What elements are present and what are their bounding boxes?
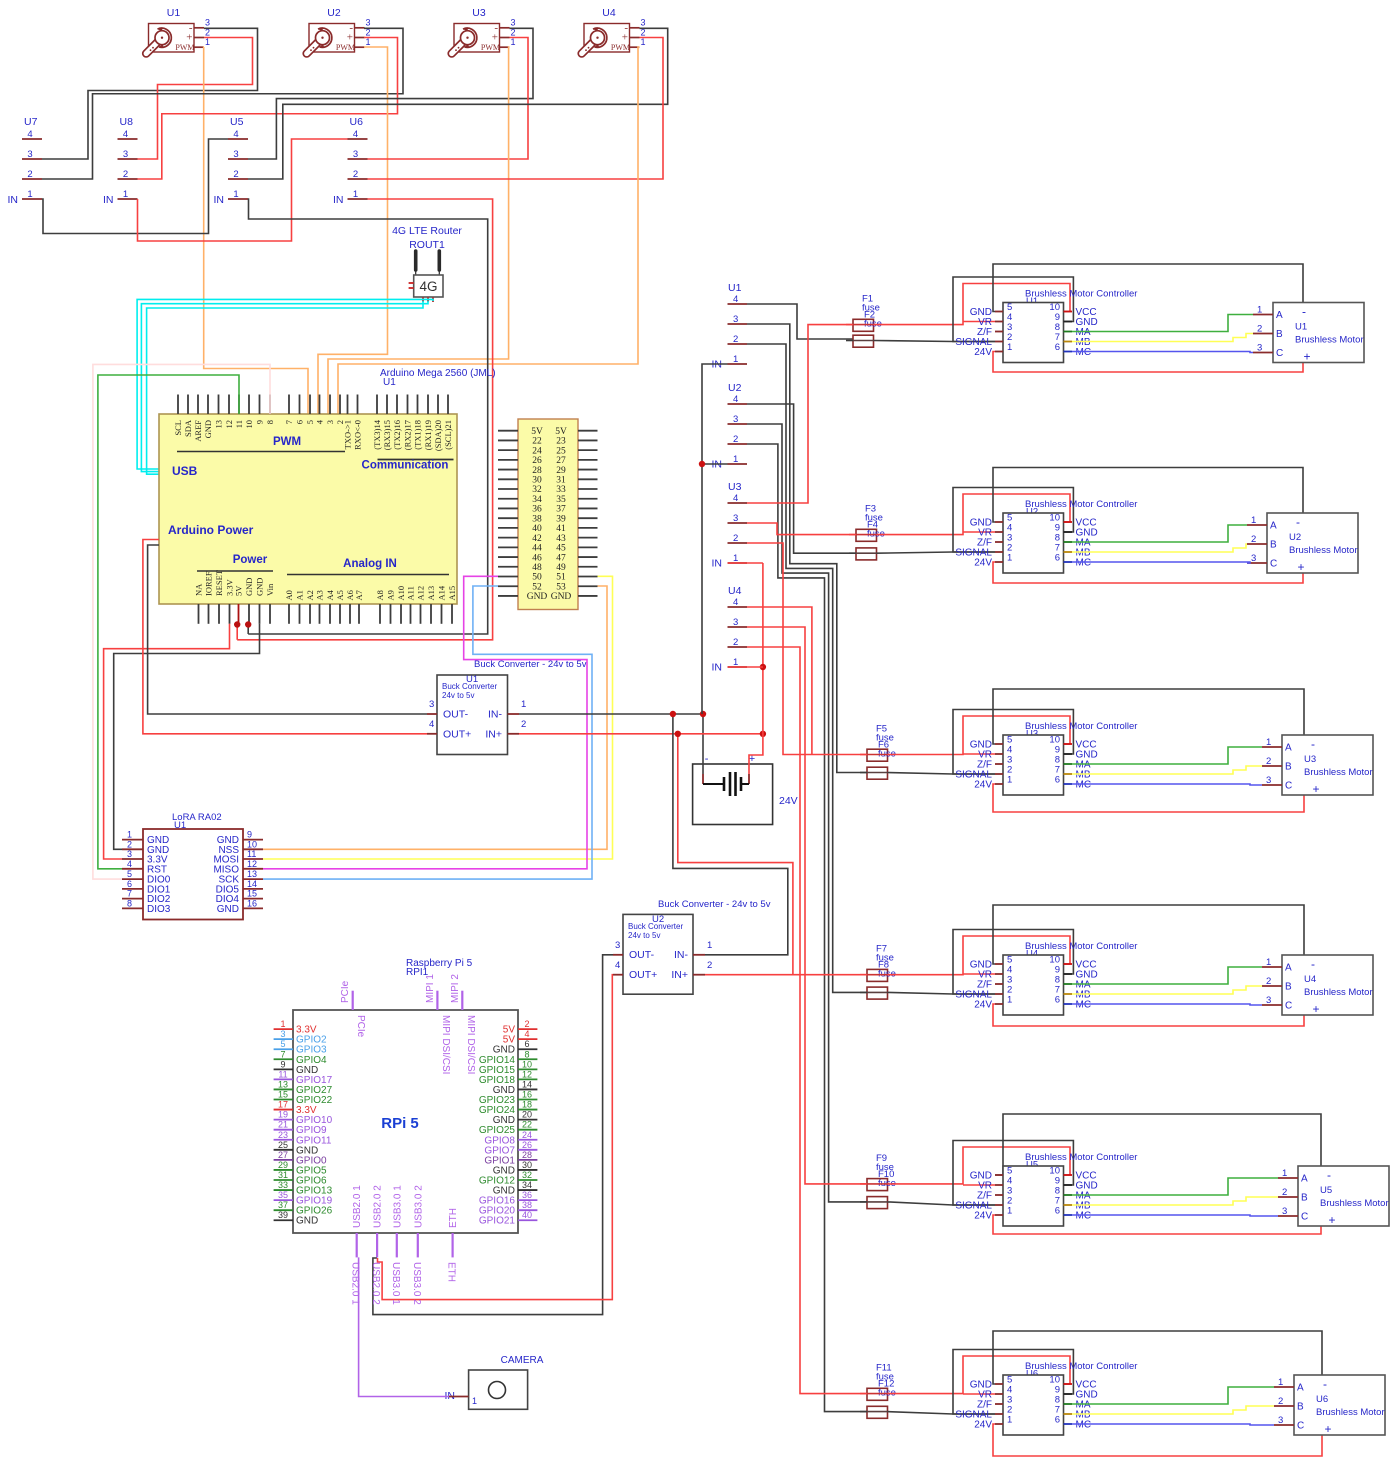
- wire controller U2 GND loop to motor minus (dark): [993, 468, 1303, 523]
- wire camera to RPi USB2.0-1 (purple): [359, 1257, 449, 1396]
- RPi left GPIO pins: [274, 1019, 333, 1227]
- wire controller U5 GND9 loop (dark): [953, 1141, 1073, 1206]
- svg-text:15: 15: [278, 1090, 288, 1100]
- svg-text:+: +: [622, 32, 628, 44]
- wire MB to motor U6 phase B (yellow): [1072, 1406, 1274, 1414]
- svg-text:3: 3: [733, 617, 738, 628]
- svg-text:38: 38: [532, 514, 542, 524]
- fuse F5: [867, 724, 894, 762]
- svg-text:-: -: [1296, 515, 1300, 529]
- svg-text:MC: MC: [1076, 1211, 1092, 1222]
- svg-text:RXO<-0: RXO<-0: [353, 420, 363, 450]
- svg-text:3: 3: [1266, 775, 1271, 786]
- svg-text:-: -: [1311, 737, 1315, 751]
- svg-text:47: 47: [556, 553, 566, 563]
- wire U4 pin1 PWM to Arduino pin2 (orange): [338, 47, 640, 414]
- svg-text:2: 2: [524, 1019, 529, 1029]
- svg-text:24: 24: [522, 1130, 532, 1140]
- svg-text:3: 3: [1282, 1206, 1287, 1217]
- svg-text:GND: GND: [296, 1216, 318, 1227]
- svg-text:PWM: PWM: [273, 436, 301, 448]
- svg-text:IN+: IN+: [671, 969, 688, 981]
- RPi right GPIO pins: [479, 1019, 538, 1227]
- svg-text:MIPI DSI/CSI: MIPI DSI/CSI: [440, 1015, 451, 1074]
- connector U8: [103, 116, 138, 206]
- svg-text:3: 3: [1278, 1415, 1283, 1426]
- wire U6 IN to Arduino 5V net (red): [237, 199, 492, 640]
- svg-text:1: 1: [1266, 737, 1271, 748]
- svg-text:1: 1: [1257, 305, 1262, 316]
- wire fuse F2 to SIGNAL pin (dark): [874, 341, 996, 342]
- wire fuse F6 to SIGNAL pin (dark): [888, 773, 996, 775]
- svg-text:C: C: [1285, 1001, 1292, 1012]
- svg-text:1: 1: [1278, 1377, 1283, 1388]
- svg-text:C: C: [1276, 348, 1283, 359]
- fuse F12: [867, 1379, 896, 1419]
- svg-text:3: 3: [733, 314, 738, 325]
- svg-text:Buck Converter: Buck Converter: [628, 922, 683, 931]
- fuse F10: [867, 1169, 896, 1209]
- svg-text:23: 23: [278, 1130, 288, 1140]
- svg-text:1: 1: [27, 189, 32, 200]
- wire LoRa DIO0 to Arduino pin8 (pink): [93, 364, 270, 879]
- wire MB to motor U5 phase B (yellow): [1072, 1197, 1278, 1205]
- svg-text:+: +: [1324, 1422, 1331, 1436]
- svg-text:14: 14: [247, 879, 257, 889]
- svg-text:A13: A13: [426, 586, 436, 601]
- svg-text:37: 37: [278, 1200, 288, 1210]
- svg-text:16: 16: [522, 1090, 532, 1100]
- svg-text:50: 50: [532, 573, 542, 583]
- wire controller U5 GND loop to motor minus (dark): [995, 1114, 1321, 1175]
- svg-text:13: 13: [247, 869, 257, 879]
- svg-text:34: 34: [532, 495, 542, 505]
- svg-text:48: 48: [532, 563, 542, 573]
- svg-text:(SCL)21: (SCL)21: [443, 420, 453, 450]
- svg-text:13: 13: [214, 420, 224, 429]
- wire fuse F3 to controller VR/VCC (red): [877, 494, 1071, 535]
- svg-text:2: 2: [521, 719, 526, 730]
- svg-text:37: 37: [556, 505, 566, 515]
- svg-text:Arduino Mega 2560 (JML): Arduino Mega 2560 (JML): [380, 368, 496, 379]
- wire controller U1 GND9 loop (dark): [953, 277, 1073, 342]
- fuse F1: [853, 294, 880, 332]
- svg-text:24V: 24V: [974, 347, 992, 358]
- wire U2c pin4 to fuse F4 (dark): [747, 404, 856, 553]
- wire fuse F9 to controller VR/VCC (red): [888, 1147, 1071, 1184]
- svg-text:U3: U3: [1304, 754, 1316, 765]
- brushless motor U3: [1262, 735, 1373, 796]
- svg-text:10: 10: [244, 420, 254, 429]
- wire 24V feed through fuse F3 (red): [849, 534, 856, 536]
- svg-text:6: 6: [1055, 342, 1060, 353]
- buck converter U2 (24v to 5v): [613, 899, 771, 994]
- connector U6: [333, 116, 368, 206]
- svg-text:U2: U2: [327, 7, 341, 19]
- wire signal feed through fuse F6 (dark): [860, 772, 867, 774]
- wire buck2 OUT+ to RPi (red loop): [378, 975, 614, 1300]
- wire Arduino GND pin to GND net (dark): [247, 624, 249, 634]
- svg-text:2: 2: [233, 169, 238, 180]
- svg-text:-: -: [1323, 1377, 1327, 1391]
- svg-text:5V: 5V: [234, 585, 244, 596]
- fuse F11: [867, 1363, 894, 1401]
- connector U2 (motor signal header): [712, 382, 748, 471]
- svg-text:A: A: [1276, 310, 1283, 321]
- svg-text:IN: IN: [712, 558, 723, 570]
- svg-text:6: 6: [1055, 775, 1060, 786]
- Arduino Communication label: [378, 459, 454, 461]
- svg-text:39: 39: [278, 1210, 288, 1220]
- svg-text:A: A: [1285, 743, 1292, 754]
- wire MC to motor U4 phase C (blue): [1072, 1004, 1262, 1005]
- connector U4 (motor signal header): [712, 585, 748, 674]
- wire U3 IN to battery bus (red): [728, 562, 763, 564]
- Raspberry Pi 5 RPI1: [293, 958, 518, 1233]
- svg-text:17: 17: [278, 1100, 288, 1110]
- brushless motor controller U2: [955, 499, 1137, 573]
- wire signal feed through fuse F12 (dark): [860, 1411, 867, 1413]
- RPi bottom interface pins (USB, ETH): [350, 1185, 459, 1305]
- wire controller U1 GND loop to motor minus (dark): [993, 264, 1303, 312]
- svg-text:32: 32: [522, 1170, 532, 1180]
- wire signal feed through fuse F8 (dark): [860, 991, 867, 993]
- svg-text:40: 40: [532, 524, 542, 534]
- svg-text:(TX1)18: (TX1)18: [413, 420, 423, 450]
- wire controller U3 GND loop to motor minus (dark): [993, 689, 1304, 744]
- wire VR pin to red net: [963, 1184, 995, 1186]
- wire 24V feed through fuse F9 (red): [860, 1183, 867, 1185]
- svg-text:+: +: [1328, 1213, 1335, 1227]
- brushless motor U5: [1278, 1166, 1389, 1227]
- wire U4c pin4 to fuse F5 feed (red): [747, 607, 812, 755]
- svg-text:B: B: [1285, 982, 1292, 993]
- svg-text:28: 28: [522, 1150, 532, 1160]
- wire 24V pin to motor plus (red): [993, 1215, 1321, 1234]
- svg-text:1: 1: [1007, 1415, 1012, 1426]
- svg-text:Vin: Vin: [265, 583, 275, 596]
- RPi top interface pins (PCIe, MIPI): [340, 974, 476, 1075]
- svg-text:OUT-: OUT-: [443, 709, 469, 721]
- svg-text:23: 23: [556, 437, 566, 447]
- svg-text:24v to 5v: 24v to 5v: [442, 691, 474, 700]
- svg-text:A3: A3: [315, 590, 325, 600]
- svg-text:GPIO21: GPIO21: [479, 1216, 516, 1227]
- svg-text:A2: A2: [305, 590, 315, 600]
- wire U7 IN to U5 pin4 (dark): [42, 139, 228, 234]
- wire MA to motor U3 phase A (green): [1072, 747, 1262, 764]
- svg-text:A5: A5: [335, 590, 345, 600]
- svg-text:25: 25: [278, 1140, 288, 1150]
- svg-text:Brushless Motor: Brushless Motor: [1304, 987, 1373, 998]
- svg-text:3: 3: [366, 18, 371, 28]
- wire Arduino 5V pin to 5V net (red): [236, 624, 238, 640]
- svg-text:6: 6: [127, 879, 132, 889]
- svg-text:36: 36: [522, 1190, 532, 1200]
- svg-text:IN-: IN-: [488, 709, 503, 721]
- svg-text:4: 4: [429, 719, 434, 730]
- wire VR pin to red net: [963, 531, 995, 533]
- svg-text:5: 5: [305, 420, 315, 424]
- svg-text:3: 3: [325, 420, 335, 424]
- svg-text:3: 3: [27, 149, 32, 160]
- svg-text:34: 34: [522, 1180, 532, 1190]
- svg-text:MC: MC: [1076, 347, 1092, 358]
- wire MA to motor U2 phase A (green): [1072, 525, 1247, 542]
- svg-text:11: 11: [278, 1069, 287, 1079]
- brushless motor controller U3: [955, 721, 1137, 795]
- svg-text:TXO->1: TXO->1: [343, 420, 353, 449]
- svg-text:PWM: PWM: [481, 43, 500, 52]
- svg-text:A0: A0: [284, 590, 294, 600]
- svg-text:52: 52: [532, 582, 542, 592]
- wire signal feed through fuse F4 (dark): [849, 552, 856, 554]
- svg-text:10: 10: [522, 1059, 532, 1069]
- svg-text:3: 3: [429, 699, 434, 710]
- svg-text:2: 2: [1282, 1187, 1287, 1198]
- svg-text:29: 29: [278, 1160, 288, 1170]
- Arduino bottom pin headers: [194, 569, 458, 624]
- svg-text:1: 1: [707, 940, 712, 951]
- wire buck1 IN+ to battery bus (red): [519, 733, 763, 735]
- svg-text:24V: 24V: [974, 558, 992, 569]
- svg-text:C: C: [1297, 1421, 1304, 1432]
- svg-text:3: 3: [233, 149, 238, 160]
- wire fuse F10 to SIGNAL pin (dark): [888, 1202, 996, 1205]
- svg-text:OUT+: OUT+: [443, 729, 471, 741]
- svg-text:USB2.0 1: USB2.0 1: [352, 1185, 363, 1228]
- svg-text:7: 7: [284, 420, 294, 424]
- svg-text:NA: NA: [194, 583, 204, 596]
- wire buck1 OUT+ to Arduino power (red): [143, 540, 427, 734]
- svg-text:C: C: [1270, 559, 1277, 570]
- wire fuse F5 to controller VR/VCC (red): [888, 716, 1071, 755]
- svg-text:B: B: [1297, 1402, 1304, 1413]
- svg-text:4: 4: [733, 597, 738, 608]
- svg-text:24V: 24V: [974, 1211, 992, 1222]
- fuse F9: [867, 1153, 894, 1191]
- svg-text:32: 32: [532, 485, 542, 495]
- svg-text:Buck Converter - 24v to 5v: Buck Converter - 24v to 5v: [658, 899, 771, 910]
- svg-text:OUT+: OUT+: [629, 969, 657, 981]
- svg-text:U1: U1: [1295, 322, 1307, 333]
- svg-text:1: 1: [1007, 342, 1012, 353]
- wire U4 pin2 to U6 pin2 (red): [368, 38, 664, 180]
- svg-text:Brushless Motor Controller: Brushless Motor Controller: [1025, 1152, 1137, 1163]
- svg-text:22: 22: [522, 1120, 532, 1130]
- svg-text:PWM: PWM: [175, 43, 194, 52]
- wire U3c pin2 to fuse F5 (red): [747, 543, 867, 755]
- svg-text:53: 53: [556, 582, 566, 592]
- svg-text:5V: 5V: [555, 427, 567, 437]
- wire buck2 OUT- to RPi (dark loop): [373, 955, 613, 1315]
- junction dot Arduino 5V: [234, 621, 240, 627]
- svg-text:USB3.0 2: USB3.0 2: [413, 1185, 424, 1228]
- svg-text:4: 4: [233, 129, 238, 140]
- wire MC to motor U2 phase C (blue): [1072, 562, 1250, 563]
- svg-text:4: 4: [615, 960, 620, 971]
- wire controller U6 GND9 loop (dark): [953, 1350, 1073, 1415]
- svg-text:1: 1: [1251, 515, 1256, 526]
- svg-text:(SDA)20: (SDA)20: [433, 420, 443, 451]
- wire 24V feed through fuse F1 (red): [846, 324, 853, 326]
- wire buck1 IN- to battery minus (dark): [519, 713, 703, 715]
- svg-text:U3: U3: [728, 481, 742, 493]
- svg-text:6: 6: [1055, 1206, 1060, 1217]
- svg-text:U1: U1: [167, 7, 181, 19]
- fuse F6: [867, 740, 896, 780]
- wire U1 pin1 PWM to Arduino pin5 (orange): [204, 47, 308, 414]
- Arduino 22-53 pin header block: [498, 419, 598, 610]
- svg-text:ETH: ETH: [448, 1208, 459, 1228]
- svg-text:24v to 5v: 24v to 5v: [628, 931, 660, 940]
- svg-text:2: 2: [123, 169, 128, 180]
- svg-text:1: 1: [733, 354, 738, 365]
- svg-text:28: 28: [532, 466, 542, 476]
- wire MC to motor U6 phase C (blue): [1072, 1424, 1274, 1425]
- wire 24V feed through fuse F7 (red): [860, 974, 867, 976]
- svg-text:1: 1: [1282, 1168, 1287, 1179]
- wire controller U3 GND9 loop (dark): [953, 710, 1073, 775]
- svg-text:PCIe: PCIe: [355, 1015, 366, 1038]
- wire U3c pin4 to fuse F1 (red): [747, 325, 853, 503]
- brushless motor U2: [1247, 513, 1358, 574]
- svg-text:3: 3: [353, 149, 358, 160]
- svg-text:1: 1: [280, 1019, 285, 1029]
- svg-text:(TX2)16: (TX2)16: [392, 420, 402, 450]
- svg-text:U6: U6: [350, 116, 364, 128]
- battery 24V: [693, 753, 798, 825]
- wire LoRa 3.3V to Arduino 3.3V (red): [104, 624, 230, 859]
- wire router to Arduino USB (cyan bundle): [147, 301, 423, 474]
- svg-text:GND: GND: [527, 592, 548, 602]
- svg-text:MC: MC: [1076, 780, 1092, 791]
- svg-text:30: 30: [522, 1160, 532, 1170]
- svg-text:IN: IN: [8, 194, 19, 206]
- svg-text:B: B: [1301, 1193, 1308, 1204]
- svg-text:8: 8: [524, 1049, 529, 1059]
- wire MC to motor U3 phase C (blue): [1072, 784, 1262, 785]
- svg-text:3: 3: [733, 513, 738, 524]
- svg-text:11: 11: [247, 849, 256, 859]
- svg-text:U4: U4: [728, 585, 742, 597]
- wire MA to motor U6 phase A (green): [1072, 1387, 1274, 1404]
- svg-text:PCIe: PCIe: [340, 980, 351, 1003]
- svg-text:1: 1: [233, 189, 238, 200]
- svg-text:U4: U4: [602, 7, 616, 19]
- svg-text:7: 7: [127, 889, 132, 899]
- fuse F2: [853, 310, 882, 348]
- fuse F8: [867, 960, 896, 999]
- wire center IN bus U1/U2 to buck1 IN- (dark): [702, 364, 728, 714]
- svg-text:Communication: Communication: [362, 460, 449, 472]
- svg-text:33: 33: [556, 485, 566, 495]
- svg-text:+: +: [347, 32, 353, 44]
- svg-text:+: +: [186, 32, 192, 44]
- svg-text:4: 4: [353, 129, 358, 140]
- svg-text:2: 2: [1251, 534, 1256, 545]
- svg-text:8: 8: [127, 898, 132, 908]
- svg-text:35: 35: [278, 1190, 288, 1200]
- wire signal feed through fuse F2 (dark): [846, 340, 853, 342]
- servo motor U3: [452, 7, 516, 54]
- svg-text:PWM: PWM: [336, 43, 355, 52]
- wire 24V feed through fuse F5 (red): [860, 754, 867, 756]
- brushless motor controller U6: [955, 1361, 1137, 1435]
- svg-text:IN: IN: [712, 662, 723, 674]
- servo motor U1: [146, 7, 210, 54]
- svg-text:27: 27: [278, 1150, 288, 1160]
- svg-text:12: 12: [522, 1069, 532, 1079]
- svg-text:24V: 24V: [779, 795, 798, 807]
- wire IN+ branch to buck2 IN+ (red): [678, 734, 793, 975]
- svg-text:49: 49: [556, 563, 566, 573]
- svg-text:A7: A7: [354, 590, 364, 600]
- svg-text:1: 1: [353, 189, 358, 200]
- svg-text:A: A: [1285, 963, 1292, 974]
- svg-text:1: 1: [1007, 995, 1012, 1006]
- wire U1c pin2 to fuse F8 (dark): [747, 344, 867, 992]
- wire LoRa RST to Arduino pin11 (green): [98, 375, 239, 869]
- svg-text:15: 15: [247, 889, 257, 899]
- svg-text:4G LTE Router: 4G LTE Router: [392, 225, 462, 237]
- fuse F7: [867, 944, 894, 982]
- wire controller U4 GND9 loop (dark): [953, 930, 1073, 995]
- svg-text:A8: A8: [375, 590, 385, 600]
- wire controller U4 GND loop to motor minus (dark): [993, 905, 1304, 964]
- svg-text:6: 6: [1055, 553, 1060, 564]
- wire U3 pin1 PWM to Arduino pin3 (orange): [328, 47, 510, 414]
- svg-text:Brushless Motor: Brushless Motor: [1316, 1407, 1385, 1418]
- svg-text:1: 1: [1007, 1206, 1012, 1217]
- wire buck2 IN+ to fuse F7 (red): [705, 974, 867, 976]
- svg-text:10: 10: [247, 839, 257, 849]
- svg-text:4: 4: [524, 1029, 529, 1039]
- svg-text:IN: IN: [333, 194, 344, 206]
- wire U4 IN to battery bus (red): [728, 666, 763, 668]
- svg-text:42: 42: [532, 534, 542, 544]
- svg-text:3: 3: [123, 149, 128, 160]
- svg-text:MIPI 1: MIPI 1: [425, 974, 436, 1003]
- svg-text:Arduino Power: Arduino Power: [168, 523, 254, 537]
- fuse F4: [856, 520, 885, 560]
- svg-text:6: 6: [1055, 1415, 1060, 1426]
- svg-text:U8: U8: [120, 116, 134, 128]
- wire MC to motor U5 phase C (blue): [1072, 1215, 1278, 1216]
- brushless motor U1: [1253, 303, 1364, 364]
- svg-text:MC: MC: [1076, 558, 1092, 569]
- svg-text:B: B: [1276, 329, 1283, 340]
- Arduino top pin headers: [173, 395, 453, 452]
- svg-text:U1: U1: [383, 377, 396, 388]
- brushless motor controller U4: [955, 941, 1137, 1015]
- wire U2 pin3 to U7 pin2 (dark): [42, 28, 403, 179]
- svg-text:19: 19: [278, 1110, 288, 1120]
- svg-text:IN: IN: [214, 194, 225, 206]
- svg-text:A10: A10: [396, 586, 406, 601]
- svg-text:12: 12: [247, 859, 257, 869]
- connector U3 (motor signal header): [712, 481, 748, 570]
- wire LoRa GND2 to Arduino GND (dark): [114, 624, 260, 850]
- svg-text:Analog IN: Analog IN: [343, 558, 397, 570]
- wire 24V pin to motor plus (red): [993, 562, 1303, 583]
- svg-text:4: 4: [733, 493, 738, 504]
- svg-text:A1: A1: [295, 590, 305, 600]
- svg-text:1: 1: [127, 830, 132, 840]
- wire U2 pin1 PWM to Arduino pin4 (orange): [318, 47, 388, 414]
- svg-text:Brushless Motor: Brushless Motor: [1295, 335, 1364, 346]
- svg-text:1: 1: [1007, 775, 1012, 786]
